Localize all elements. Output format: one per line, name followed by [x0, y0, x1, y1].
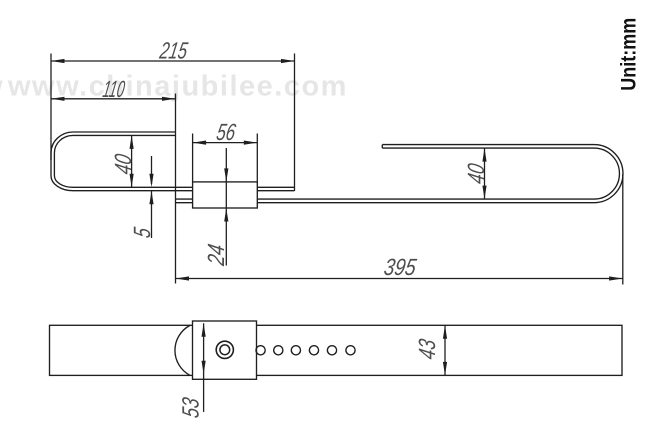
arrow 53 up-pointing — [202, 323, 206, 337]
extension line left x51 — [50, 54, 52, 161]
svg-text:40: 40 — [111, 152, 137, 176]
rivet inner circle — [220, 345, 230, 355]
arrow 40R down — [482, 186, 486, 200]
svg-text:Unit:mm: Unit:mm — [618, 18, 641, 91]
right strap outer outline with right loop — [176, 145, 623, 203]
svg-text:40: 40 — [464, 162, 490, 186]
bottom view lock body — [193, 321, 257, 379]
dimension 40 right line — [484, 148, 486, 199]
arrow 110 right — [162, 97, 176, 101]
dimension 40 left line — [131, 135, 133, 187]
dimension 56 line — [193, 142, 258, 144]
dimension 53 line — [203, 323, 205, 412]
extension line x623.3 — [622, 174, 624, 285]
dimension 215 line — [51, 60, 295, 62]
arrow 24 down-pointing — [224, 168, 228, 182]
svg-text:w: w — [0, 71, 4, 103]
svg-text:395: 395 — [382, 255, 419, 281]
rivet outer circle — [216, 341, 233, 358]
arrow 43 down-pointing — [443, 362, 447, 376]
dimension 43 line — [444, 325, 446, 375]
arrow 24 up-pointing — [224, 208, 228, 222]
arrow 56 left — [193, 141, 207, 145]
extension line 56 right — [256, 134, 258, 182]
arrow 56 right — [244, 141, 257, 145]
bottom view strap rectangle — [50, 325, 623, 375]
bottom view strap tip arc — [175, 325, 190, 375]
arrow 215 right — [281, 59, 295, 63]
arrow 395 left — [176, 276, 190, 280]
arrow 40L up — [130, 135, 134, 149]
arrow 53 down-pointing — [202, 361, 206, 375]
hole 6 — [346, 346, 355, 355]
arrow 40R up — [482, 148, 486, 162]
dimension 24 line through block — [225, 148, 227, 266]
left strap outer outline with left loop — [51, 132, 294, 191]
hole 2 — [274, 346, 283, 355]
arrow 43 up-pointing — [443, 325, 447, 339]
extension line x294.5 — [294, 54, 296, 192]
arrow 215 left — [51, 59, 65, 63]
extension line x175.5 — [175, 94, 177, 284]
hole 4 — [309, 346, 318, 355]
arrow 5 up-pointing — [149, 191, 153, 205]
lock body block (top view) — [193, 182, 258, 208]
dimension 5 upper line — [151, 156, 153, 184]
right strap inner outline — [176, 148, 620, 199]
dimension 110 line — [51, 98, 176, 100]
svg-text:53: 53 — [179, 396, 205, 420]
dimension 395 line — [176, 278, 623, 280]
left strap inner outline — [54, 135, 294, 187]
hole 5 — [327, 346, 336, 355]
extension line 56 left — [192, 134, 194, 182]
arrow 395 right — [609, 276, 623, 280]
svg-text:24: 24 — [204, 242, 230, 268]
arrow 110 left — [51, 97, 65, 101]
right strap left end cap — [381, 145, 383, 149]
arrow 40L down — [130, 174, 134, 188]
svg-text:215: 215 — [157, 39, 190, 65]
hole 1 — [256, 346, 265, 355]
hole 3 — [291, 346, 300, 355]
svg-text:110: 110 — [101, 77, 127, 103]
arrow 5 down-pointing — [149, 174, 153, 188]
dimension 5 lower line — [151, 191, 153, 238]
